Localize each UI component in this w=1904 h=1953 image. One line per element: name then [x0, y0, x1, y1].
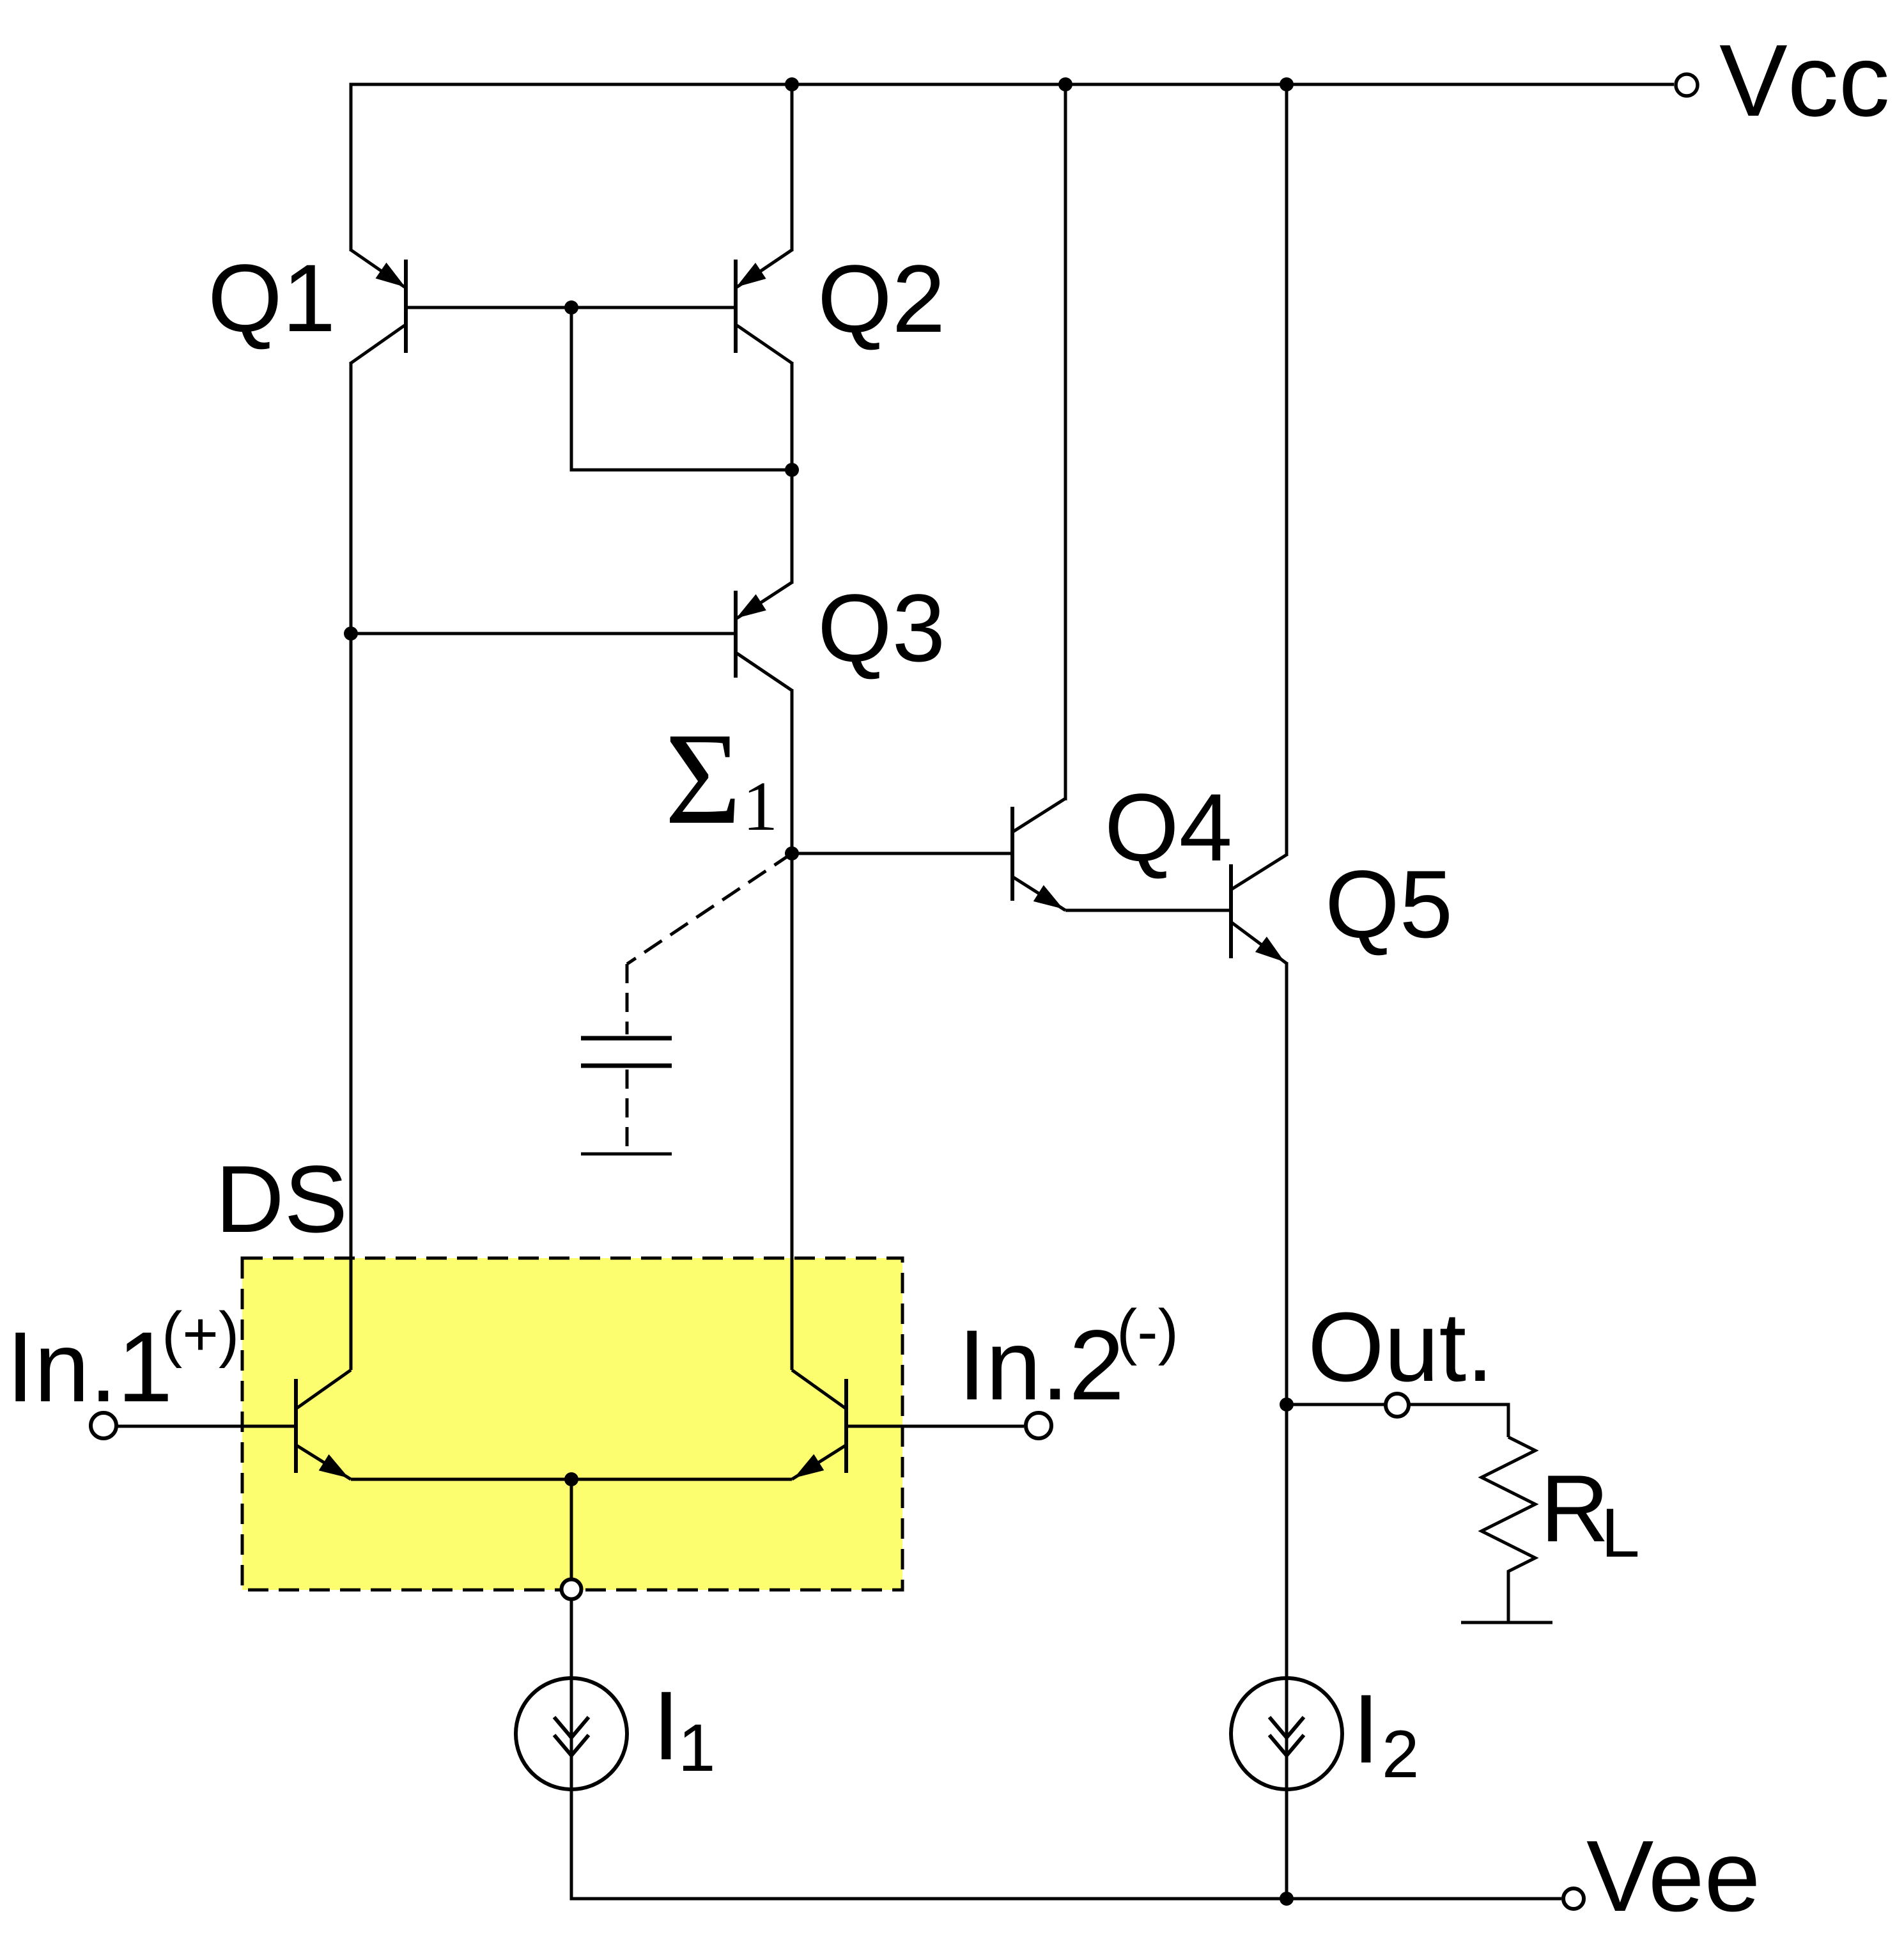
wire Q5 collector to Vcc: [1285, 84, 1289, 856]
svg-text:R: R: [1540, 1455, 1609, 1562]
wire Q1 collector down to DS: [350, 362, 353, 1370]
node Sigma1 junction: [785, 846, 799, 860]
ground under RL: [1461, 1621, 1552, 1624]
junction Vcc-Q4: [1058, 77, 1072, 91]
transistor Q4: [1012, 798, 1065, 910]
wire Q4 emitter to Q5 base: [1065, 909, 1231, 912]
wire bottom Vee rail: [570, 1897, 1562, 1901]
wire Q2 collector down: [791, 362, 794, 584]
resistor RL: [1482, 1437, 1535, 1622]
wire tail down to terminal: [570, 1479, 573, 1578]
svg-text:2: 2: [1382, 1717, 1419, 1792]
svg-text:Vcc: Vcc: [1719, 23, 1890, 137]
transistor diff pair right: [792, 1370, 846, 1479]
svg-text:Out.: Out.: [1308, 1292, 1494, 1402]
capacitor compensation (dashed): [581, 853, 792, 1151]
junction Vcc-Q5: [1280, 77, 1294, 91]
wire In.1 input lead: [118, 1425, 296, 1428]
wire tail terminal to I1 and bottom rail: [570, 1601, 573, 1901]
svg-text:Q5: Q5: [1325, 850, 1453, 958]
junction Q3 base tap: [344, 626, 358, 641]
differential stage DS highlight box: [242, 1258, 902, 1590]
current source I1: [516, 1678, 627, 1789]
svg-text:Q2: Q2: [817, 245, 945, 352]
terminal Vcc: [1676, 74, 1698, 96]
wire diff pair common emitter: [351, 1478, 792, 1481]
ground under capacitor: [581, 1153, 672, 1156]
junction output node: [1280, 1397, 1294, 1412]
junction Q1-Q2 bases: [564, 300, 578, 315]
junction coupling to Q2 collector: [785, 463, 799, 477]
transistor Q3: [736, 582, 792, 690]
svg-text:1: 1: [678, 1711, 715, 1786]
wire Q3 collector down to DS: [791, 689, 794, 1370]
wire output to load: [1410, 1404, 1508, 1437]
terminal Vee: [1563, 1888, 1584, 1909]
terminal diff tail: [562, 1580, 582, 1599]
wire output tap: [1287, 1403, 1384, 1406]
svg-text:DS: DS: [215, 1146, 348, 1252]
svg-text:Q1: Q1: [208, 244, 336, 352]
wire Q5 emitter down through I2 to bottom rail: [1285, 962, 1289, 1899]
current source I2: [1231, 1678, 1342, 1789]
wire Vcc rail: [350, 83, 1675, 86]
svg-text:I: I: [653, 1671, 680, 1780]
junction diff tail: [564, 1472, 578, 1486]
wire In.2 input lead: [846, 1425, 1024, 1428]
wire node Sigma1 to Q4 base: [792, 852, 1012, 855]
svg-text:(-): (-): [1117, 1296, 1179, 1366]
svg-text:In.1: In.1: [6, 1312, 173, 1423]
wire Q3 base connection: [351, 632, 734, 635]
svg-text:L: L: [1601, 1494, 1640, 1572]
terminal In.1: [91, 1413, 116, 1438]
wire Q2 emitter drop: [791, 84, 794, 251]
transistor diff pair left: [296, 1370, 351, 1479]
svg-text:Σ: Σ: [665, 705, 741, 852]
wire Q1-Q2 base connection: [406, 306, 736, 309]
transistor Q2: [736, 250, 792, 363]
svg-text:I: I: [1352, 1674, 1380, 1784]
wire Q1 emitter drop: [350, 84, 353, 251]
wire Q4 collector to Vcc: [1064, 84, 1067, 800]
svg-text:Q3: Q3: [817, 574, 945, 681]
svg-text:Vee: Vee: [1586, 1820, 1760, 1933]
svg-text:1: 1: [743, 767, 778, 845]
svg-text:In.2: In.2: [958, 1310, 1124, 1421]
svg-text:(+): (+): [162, 1299, 239, 1369]
transistor Q1: [351, 250, 406, 363]
junction Vcc-Q2: [785, 77, 799, 91]
transistor Q5: [1231, 855, 1287, 963]
terminal Out: [1386, 1394, 1409, 1417]
svg-text:Q4: Q4: [1104, 774, 1232, 881]
wire Q1-Q2 base coupling horizontal: [570, 469, 793, 472]
terminal In.2: [1026, 1413, 1051, 1438]
wire Q1-Q2 base coupling vertical: [570, 307, 573, 472]
junction bottom rail: [1280, 1892, 1294, 1906]
